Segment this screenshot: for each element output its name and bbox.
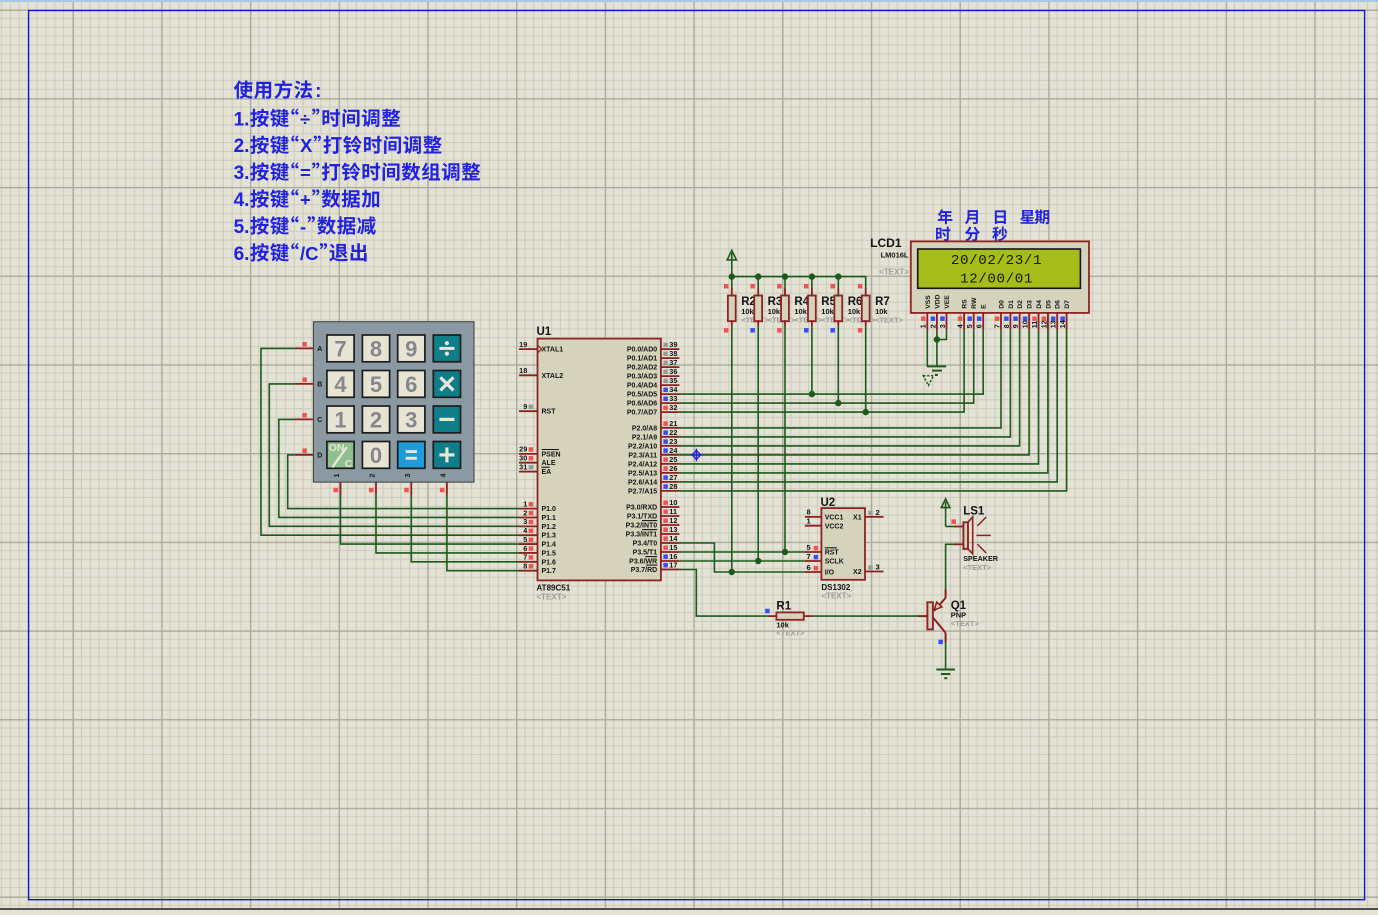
wire LS1 pin2 to Q1 emitter [946,544,954,589]
key 7 [327,335,354,362]
svg-text:VCC1: VCC1 [825,515,844,522]
svg-text:11: 11 [1032,321,1039,329]
wire P2.4 to LCD D4 [679,330,1038,464]
wire keypad col 3 to U1 P1.6 [411,495,519,562]
svg-text:7: 7 [523,553,527,562]
key minus [433,406,460,433]
speaker LS1 [963,522,968,549]
svg-text:6.: 6. [234,244,250,265]
svg-text:14: 14 [669,534,678,543]
keypad row pin B [295,383,314,385]
svg-text:PSEN: PSEN [542,451,561,458]
svg-text:÷: ÷ [300,108,310,129]
svg-text:5: 5 [807,543,811,552]
resistor R4 pin state squares [777,284,782,289]
key 6 [398,371,425,398]
svg-text:P0.1/AD1: P0.1/AD1 [627,356,657,363]
svg-text:12: 12 [1041,320,1048,328]
wire resistor top to bus [837,277,839,289]
wire LCD VEE to VDD junction [937,330,947,339]
wire R6 bottom to RW line [837,326,839,403]
svg-text:ALE: ALE [542,460,556,467]
svg-text:8: 8 [523,561,527,570]
U1 pin 27 P2.6/A14 [661,481,680,483]
key 4 [327,371,354,398]
svg-text:<TEXT>: <TEXT> [951,619,980,628]
U1 pin 7 P1.6 [519,561,538,563]
svg-text:R3: R3 [768,296,783,308]
U1 pin 6 P1.5 [519,552,538,554]
svg-text:P0.3/AD3: P0.3/AD3 [627,374,657,381]
svg-text:5: 5 [523,535,527,544]
Q1 base lead [919,615,928,617]
U1 pin 23 P2.2/A10 [661,445,680,447]
svg-text:P3.6/WR: P3.6/WR [629,559,657,566]
svg-text:-: - [300,216,306,237]
svg-text:D2: D2 [1017,300,1024,309]
U1 pin 17 P3.7/RD [661,569,680,571]
wire keypad row B to U1 P1.2 [269,384,519,526]
resistor R5 pin state squares [804,284,809,289]
wire P2.1 to LCD D1 [679,330,1010,437]
svg-text:VDD: VDD [934,294,941,308]
svg-text:35: 35 [669,376,677,385]
svg-text:P2.1/A9: P2.1/A9 [632,434,657,441]
Q1 emitter arrow (PNP) [934,602,942,610]
wire resistor top to bus [757,277,759,289]
wire keypad row C to U1 P1.1 [279,419,519,517]
svg-text:3: 3 [523,517,527,526]
wire P2.3 to LCD D3 [679,330,1029,455]
svg-text:P3.5/T1: P3.5/T1 [633,550,658,557]
svg-text:21: 21 [669,419,677,428]
wire R1 to Q1 base [813,615,918,617]
svg-text:7: 7 [334,336,346,361]
wire R3 bottom to SCLK line [757,326,759,561]
svg-text:C: C [345,458,353,470]
junction on VCC bus [835,273,841,279]
svg-text:U2: U2 [821,497,836,509]
wire resistor top to bus [731,277,733,289]
svg-text:U1: U1 [537,326,552,338]
svg-text:VSS: VSS [925,295,932,309]
svg-text:VCC2: VCC2 [825,523,844,530]
U1 pin 2 P1.1 [519,516,538,518]
svg-text:AT89C51: AT89C51 [537,584,571,593]
svg-text:P1.2: P1.2 [542,524,557,531]
U1 pin 5 P1.4 [519,543,538,545]
resistor R7 [862,296,870,322]
svg-text:P2.4/A12: P2.4/A12 [628,461,657,468]
svg-text:39: 39 [669,340,677,349]
wire keypad col 1 to U1 P1.4 [341,495,520,544]
svg-text:13: 13 [669,525,677,534]
wire P2.6 to LCD D6 [679,330,1057,482]
U1 pin 8 P1.7 [519,570,538,572]
svg-text:<TEXT>: <TEXT> [875,315,904,324]
svg-text:4: 4 [334,372,347,397]
keypad column pin 2 [375,482,377,495]
U1 pin 21 P2.0/A8 [661,427,680,429]
keypad row pin A [295,347,314,349]
junction on VCC bus [729,273,735,279]
junction R4 on RST line [782,549,788,555]
U2 pin 3 X2 [865,571,884,573]
svg-text:I/O: I/O [825,570,835,577]
svg-text:3: 3 [405,407,417,432]
svg-text:R7: R7 [875,296,890,308]
svg-text:D3: D3 [1027,300,1034,309]
svg-text:5.: 5. [234,217,250,238]
origin cursor marker [690,449,702,462]
svg-text:30: 30 [519,454,527,463]
svg-text:P1.1: P1.1 [542,515,557,522]
svg-text:27: 27 [669,473,677,482]
svg-text:RW: RW [971,297,978,309]
key 3 [398,406,425,433]
wire power to LS1 pin1 [946,526,954,528]
wire LCD VSS to ground [926,330,928,366]
svg-text:D5: D5 [1045,300,1052,309]
svg-text:P2.6/A14: P2.6/A14 [628,479,657,486]
resistor R1 [776,612,803,619]
svg-text:X: X [300,135,313,156]
LS1 pin state square [951,519,956,524]
U1 pin 14 P3.4/T0 [661,542,680,544]
svg-text:8: 8 [807,508,811,517]
resistor R7 pin state squares [858,284,863,289]
svg-text:23: 23 [669,437,677,446]
wire P2.5 to LCD D5 [679,330,1048,473]
wire P0.7 to LCD RS [679,330,964,412]
transistor Q1 base bar [927,602,933,629]
U2 pin 8 VCC1 [805,516,822,518]
svg-text:1: 1 [523,499,527,508]
svg-text:LCD1: LCD1 [870,236,902,250]
wire P2.0 to LCD D0 [679,330,1001,428]
wire VCC bus over resistors [732,277,866,289]
resistor R2 pin state squares [724,284,729,289]
svg-text:P2.3/A11: P2.3/A11 [628,452,657,459]
wire Q1 collector to ground [945,643,947,670]
key plus [433,442,460,469]
svg-text:P1.5: P1.5 [542,550,557,557]
key 5 [362,371,389,398]
U1 pin 9 RST [519,410,538,412]
U1 pin 13 P3.3/INT1 [661,533,680,535]
wire keypad col 4 to U1 P1.7 [447,495,519,571]
junction R3 on SCLK line [755,558,761,564]
wire U1 P3.6/WR to U2 SCLK [679,560,805,562]
key 1 [327,406,354,433]
U1 pin 22 P2.1/A9 [661,436,680,438]
svg-text:P3.2/INT0: P3.2/INT0 [626,523,658,530]
svg-text:PNP: PNP [951,610,966,619]
U1 pin 11 P3.1/TXD [661,515,680,517]
mcu U1 AT89C51 body [538,339,661,581]
svg-text:2: 2 [930,324,937,328]
svg-text:0: 0 [370,443,382,468]
svg-text:19: 19 [519,340,527,349]
svg-text:9: 9 [405,336,417,361]
svg-text:P0.2/AD2: P0.2/AD2 [627,365,657,372]
LS1 pin 1 [954,526,964,528]
svg-text:12: 12 [669,516,677,525]
header text 时 分 秒 [936,227,950,241]
svg-text:4: 4 [440,473,447,477]
instruction text title [234,80,253,98]
svg-text:10: 10 [669,498,677,507]
svg-text:3.: 3. [234,163,250,184]
U1 pin 35 P0.4/AD4 [661,384,680,386]
svg-text:<TEXT>: <TEXT> [963,563,992,572]
svg-text:17: 17 [669,561,677,570]
svg-text:P0.7/AD7: P0.7/AD7 [627,410,657,417]
junction R5 on E line [809,391,815,397]
U1 pin 33 P0.6/AD6 [661,402,680,404]
resistor R2 [728,296,736,322]
svg-text:B: B [317,381,322,388]
junction VDD/VEE [934,336,940,342]
svg-text:11: 11 [669,507,677,516]
resistor R5 [808,296,816,322]
svg-text:<TEXT>: <TEXT> [776,629,805,638]
svg-text:=: = [300,162,311,183]
svg-text:<TEXT>: <TEXT> [821,592,851,601]
svg-text:5: 5 [967,324,974,328]
keypad column pin 1 [340,482,342,495]
svg-text:<TEXT>: <TEXT> [537,593,567,602]
svg-text:LM016L: LM016L [881,251,909,260]
svg-text:P3.4/T0: P3.4/T0 [633,541,658,548]
svg-text:LS1: LS1 [963,505,985,517]
svg-text:34: 34 [669,385,678,394]
resistor R4 [781,296,789,322]
svg-text:D7: D7 [1064,300,1071,309]
svg-text:8: 8 [1004,324,1011,328]
U1 pin 24 P2.3/A11 [661,454,680,456]
power symbol VCC arrow [727,250,736,260]
U1 pin 18 XTAL2 [519,374,538,376]
svg-text:SCLK: SCLK [825,559,844,566]
svg-text:D4: D4 [1036,300,1043,309]
wire P2.7 to LCD D7 [679,330,1066,491]
wire resistor top to bus [811,277,813,289]
U1 pin 15 P3.5/T1 [661,551,680,553]
key 9 [398,335,425,362]
svg-text:18: 18 [519,366,527,375]
svg-text:R1: R1 [776,601,791,613]
Q1 emitter lead [945,589,947,598]
svg-text:26: 26 [669,464,677,473]
svg-text:6: 6 [977,324,984,328]
svg-text:RST: RST [542,409,557,416]
U2 pin 1 VCC2 [805,525,822,527]
svg-text:1: 1 [807,517,811,526]
wire P2.2 to LCD D2 [679,330,1019,446]
Q1 collector lead [934,618,946,633]
LS1 pin 2 [954,543,964,545]
svg-text:6: 6 [405,372,417,397]
svg-text:X1: X1 [853,515,862,522]
lcd LCD1 body [911,241,1089,313]
svg-text:P3.0/RXD: P3.0/RXD [626,505,657,512]
wire keypad row D to U1 P1.0 [288,455,519,509]
keypad KP1 panel [313,322,474,482]
svg-text:DS1302: DS1302 [821,583,850,592]
Q1 collector pin state square [938,640,943,645]
svg-text:+: + [300,189,311,210]
key 8 [362,335,389,362]
junction R6 on RW line [835,400,841,406]
wire U1 P3.4/T0 to U2 I/O [679,543,805,572]
svg-text:X2: X2 [853,569,862,576]
svg-text:A: A [317,346,322,353]
U1 pin 34 P0.5/AD5 [661,393,680,395]
key multiply [433,371,460,398]
wire R5 bottom to E line [811,326,813,394]
keypad row pin C [295,418,314,420]
U2 pin 7 SCLK [805,560,822,562]
svg-text:10: 10 [1023,320,1030,328]
svg-text:P1.0: P1.0 [542,506,557,513]
LS1 sound rays [976,517,990,553]
svg-text:6: 6 [807,563,811,572]
svg-text:P0.4/AD4: P0.4/AD4 [627,383,657,390]
svg-text:25: 25 [669,455,677,464]
svg-text:P1.4: P1.4 [542,542,557,549]
svg-text:3: 3 [940,324,947,328]
keypad column pin 3 [410,482,412,495]
U1 pin 12 P3.2/INT0 [661,524,680,526]
junction on VCC bus [755,273,761,279]
U2 pin 2 X1 [865,516,884,518]
R1 pin state square [765,609,770,614]
svg-text:4.: 4. [234,190,250,211]
svg-text:15: 15 [669,543,677,552]
svg-text:1: 1 [334,407,346,432]
U1 pin 28 P2.7/A15 [661,490,680,492]
resistor R6 [834,296,842,322]
wire P0.5 to LCD E [679,330,983,394]
svg-text:6: 6 [523,544,527,553]
svg-text:D6: D6 [1055,300,1062,309]
wire LCD VDD to ground [936,330,938,366]
U1 pin 39 P0.0/AD0 [661,348,680,350]
svg-text:7: 7 [807,552,811,561]
svg-text:36: 36 [669,367,677,376]
wire keypad col 2 to U1 P1.5 [376,495,519,553]
svg-text:XTAL1: XTAL1 [542,347,564,354]
svg-text:31: 31 [519,462,527,471]
svg-text:2: 2 [523,508,527,517]
svg-text:8: 8 [370,336,382,361]
svg-text:P2.7/A15: P2.7/A15 [628,488,657,495]
U1 pin 16 P3.6/WR [661,560,680,562]
svg-text:RST: RST [825,550,840,557]
svg-text:1: 1 [921,324,928,328]
U1 pin 1 P1.0 [519,508,538,510]
U1 pin 37 P0.2/AD2 [661,366,680,368]
wire R7 bottom to RS line [865,326,867,412]
U1 pin 29 PSEN [519,453,538,455]
svg-text:P2.0/A8: P2.0/A8 [632,425,657,432]
U2 pin 6 I/O [805,571,822,573]
ground symbol below Q1 [936,670,955,679]
junction on VCC bus [809,273,815,279]
resistor R6 pin state squares [830,284,835,289]
svg-text:4: 4 [958,324,965,328]
svg-text:38: 38 [669,349,677,358]
svg-text:2: 2 [370,473,377,477]
svg-text:14: 14 [1060,320,1067,328]
key divide [433,335,460,362]
U1 pin 31 EA [519,471,538,473]
U1 pin 38 P0.1/AD1 [661,357,680,359]
svg-text:12/00/01: 12/00/01 [960,272,1033,288]
lcd screen [918,249,1081,288]
wire keypad row A to U1 P1.3 [261,348,519,535]
U1 pin 25 P2.4/A12 [661,463,680,465]
svg-text:P3.3/INT1: P3.3/INT1 [626,532,658,539]
svg-text:P3.1/TXD: P3.1/TXD [627,514,657,521]
svg-text:1: 1 [334,473,341,477]
svg-text:32: 32 [669,403,677,412]
svg-text:RS: RS [962,299,969,309]
svg-text:E: E [981,304,988,309]
rtc U2 DS1302 body [821,508,865,580]
U1 pin 19 XTAL1 [519,348,538,350]
svg-text::: : [315,81,321,102]
svg-text:SPEAKER: SPEAKER [963,554,999,563]
wire P0.6 to LCD RW [679,330,973,403]
svg-text:13: 13 [1051,320,1058,328]
svg-text:22: 22 [669,428,677,437]
svg-text:37: 37 [669,358,677,367]
svg-text:2: 2 [370,407,382,432]
key ON/C [327,442,354,469]
wire U1 P3.7/RD to R1 [679,570,768,617]
svg-text:P1.6: P1.6 [542,559,557,566]
junction R7 on RS line [863,409,869,415]
svg-text:P2.2/A10: P2.2/A10 [628,443,657,450]
key equals [398,442,425,469]
svg-text:20/02/23/1: 20/02/23/1 [951,253,1042,269]
keypad row pin D [295,454,314,456]
key 2 [362,406,389,433]
svg-text:9: 9 [1013,324,1020,328]
U1 pin 36 P0.3/AD3 [661,375,680,377]
junction on VCC bus [782,273,788,279]
svg-text:1.: 1. [234,109,250,130]
svg-text:P0.0/AD0: P0.0/AD0 [627,347,657,354]
wire R2 bottom to I/O line [731,326,733,572]
svg-text:P2.5/A13: P2.5/A13 [628,470,657,477]
svg-text:3: 3 [405,473,412,477]
junction R2 on I/O line [729,569,735,575]
svg-text:3: 3 [876,563,880,572]
svg-text:P1.3: P1.3 [542,533,557,540]
svg-text:5: 5 [370,372,382,397]
svg-text:2: 2 [876,508,880,517]
svg-text:D1: D1 [1008,300,1015,309]
ground symbol below LCD [927,366,946,375]
svg-text:XTAL2: XTAL2 [542,373,564,380]
svg-text:EA: EA [542,469,552,476]
U1 pin 3 P1.2 [519,525,538,527]
svg-text:R6: R6 [848,296,863,308]
U1 pin 26 P2.5/A13 [661,472,680,474]
